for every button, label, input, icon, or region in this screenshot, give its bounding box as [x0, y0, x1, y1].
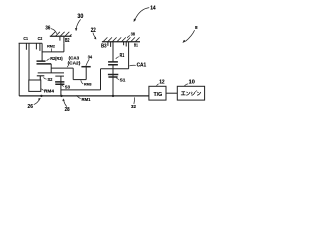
label RM4 with leader [41, 88, 54, 93]
svg-text:S2: S2 [48, 77, 53, 83]
label S3 [62, 84, 71, 89]
label S2 [43, 77, 52, 83]
connector T/G to engine [166, 92, 177, 94]
svg-text:36: 36 [45, 26, 50, 32]
sun gear S1 element [108, 69, 118, 96]
wall W38 (right hatched ground) [102, 37, 140, 41]
svg-text:B1: B1 [134, 43, 139, 48]
ring gear R1 stem and plates [108, 42, 118, 69]
svg-text:(CA2): (CA2) [68, 60, 81, 65]
clutch C2 plates [36, 43, 40, 51]
svg-text:10: 10 [189, 80, 195, 86]
label R2(R3) [47, 56, 64, 61]
label RM3 [81, 80, 92, 86]
svg-text:C1: C1 [23, 36, 28, 41]
label 28 with arrow [63, 99, 70, 113]
brake B3 plates [108, 42, 111, 47]
label 10 with leader [184, 80, 195, 87]
label 14 with arrow [134, 6, 156, 22]
vertical link x86.3 [85, 67, 87, 80]
label CA2 [67, 60, 81, 67]
svg-text:RM1: RM1 [82, 97, 91, 102]
member RM2 bracket [42, 43, 64, 61]
svg-text:26: 26 [28, 104, 33, 110]
svg-text:R1: R1 [120, 53, 125, 59]
svg-text:12: 12 [159, 80, 165, 86]
crank horizontal RM3 [73, 79, 86, 81]
junction node 28 [60, 95, 62, 97]
svg-text:14: 14 [150, 6, 155, 12]
svg-text:S1: S1 [120, 78, 126, 83]
label 34 [86, 55, 93, 66]
staple member CA1 lower [61, 69, 101, 90]
sun gear S3 element [55, 76, 64, 96]
wall W36 (left hatched ground) [50, 32, 72, 36]
output bus RM1 [19, 95, 149, 97]
box T/G [149, 86, 166, 100]
link lineB CA2 [38, 72, 64, 74]
label RM1 [76, 95, 90, 101]
svg-text:B3: B3 [101, 43, 107, 49]
brake B2 plates [60, 37, 64, 44]
top rail [19, 42, 42, 44]
label 26 with arrow [28, 98, 41, 110]
junction node 26 [40, 95, 42, 97]
svg-text:30: 30 [77, 13, 83, 20]
vertical link x49.5 [50, 64, 52, 73]
link lineC [101, 68, 129, 70]
svg-text:S3: S3 [65, 84, 71, 89]
svg-text:RM4: RM4 [44, 88, 54, 93]
svg-text:T/G: T/G [154, 92, 163, 98]
big box left edge [18, 43, 20, 96]
label 12 with leader [156, 80, 164, 87]
ring gear R2(R3) plates [37, 61, 52, 64]
svg-text:8: 8 [195, 25, 198, 31]
svg-text:R2(R3): R2(R3) [50, 56, 63, 61]
label 38 [127, 31, 135, 38]
label 30 with arrow [75, 13, 84, 31]
clutch C1 plates [26, 43, 29, 80]
label 22 with leader [91, 27, 96, 39]
label S1 [116, 78, 126, 83]
svg-text:RM3: RM3 [84, 82, 92, 87]
brake B1 plates [124, 42, 127, 47]
carrier CA1 vertical [128, 42, 130, 69]
box engine [177, 86, 204, 100]
label CA1 [129, 62, 146, 68]
label R1 [116, 53, 125, 59]
sun gear S2 bar [37, 76, 45, 80]
vertical link x72 [72, 68, 74, 80]
label 32 with leader [131, 97, 136, 110]
svg-text:B2: B2 [65, 38, 70, 44]
label RM2 with tick [47, 44, 56, 52]
junction node S1/bus [112, 95, 114, 97]
svg-text:34: 34 [88, 55, 93, 60]
plate 34 [81, 66, 90, 68]
svg-text:22: 22 [91, 27, 96, 34]
svg-text:28: 28 [65, 107, 70, 113]
link lineA CA3 [51, 67, 73, 69]
svg-text:RM2: RM2 [47, 44, 56, 49]
svg-text:CA1: CA1 [137, 62, 147, 68]
svg-text:32: 32 [131, 104, 136, 110]
inner box (oil pump) [29, 80, 41, 91]
svg-text:38: 38 [131, 31, 135, 37]
label 8 with arrow [183, 25, 198, 43]
label 36 [45, 26, 56, 34]
svg-text:C2: C2 [38, 36, 43, 41]
